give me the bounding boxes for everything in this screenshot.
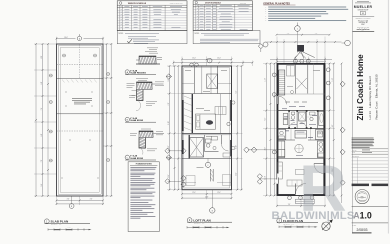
svg-text:2/08/03: 2/08/03 (357, 228, 368, 232)
loft plan outer wall (182, 66, 232, 190)
loft lower room wall (182, 158, 232, 160)
svg-text:24'-8": 24'-8" (205, 196, 209, 198)
floor plan top tag circles (293, 59, 310, 63)
svg-text:SLAB EDGE: SLAB EDGE (130, 119, 143, 122)
loft mid interior wall (182, 133, 232, 134)
floor plan scale bar (279, 226, 318, 228)
svg-text:Repoer Court Elberta, AL 36: Repoer Court Elberta, AL 36530 (374, 74, 378, 119)
svg-text:12'-4": 12'-4" (217, 58, 221, 60)
svg-text:WINDOW SCHEDULE: WINDOW SCHEDULE (128, 3, 147, 5)
slab plan left dimension lines (34, 43, 57, 197)
floor plan bottom tag circles (288, 196, 314, 200)
slab recess detail A drawing (136, 48, 162, 65)
floor plan right dimension lines (325, 63, 343, 203)
slab plan inner dashed slab edge (60, 48, 99, 192)
door schedule table (193, 1, 252, 31)
svg-text:5'-10": 5'-10" (236, 145, 238, 149)
floor plan left sliding door (276, 174, 279, 184)
svg-text:SHEET: SHEET (352, 224, 356, 226)
svg-text:1: 1 (297, 29, 298, 31)
svg-text:10'-0": 10'-0" (265, 147, 267, 151)
loft upper partition wall (182, 70, 232, 94)
floor plan kitchen band (278, 127, 325, 140)
svg-text:B: B (71, 206, 72, 208)
floor plan right section diamonds (340, 81, 345, 185)
svg-text:M: M (362, 13, 364, 15)
loft right room door (222, 135, 231, 157)
svg-text:12'-4": 12'-4" (192, 58, 196, 60)
slab plan interior joint lines (57, 44, 104, 131)
revision table (352, 156, 389, 184)
floor plan left wall window tags (272, 73, 276, 154)
svg-text:10'-10": 10'-10" (265, 175, 267, 180)
slab edge detail C drawing (130, 129, 164, 155)
slab plan wall tag circles (49, 54, 109, 162)
loft plan bottom dimension lines (181, 190, 232, 200)
svg-text:2: 2 (209, 61, 210, 63)
detail tag diamonds (166, 74, 171, 160)
svg-text:12'-4": 12'-4" (217, 192, 221, 194)
door schedule notes (193, 31, 260, 44)
slab plan bottom dimension lines (56, 196, 104, 205)
sheet date box (352, 223, 389, 233)
loft bedroom knee walls (184, 94, 221, 133)
door tag diamond (258, 44, 263, 49)
mueller design group title block (353, 1, 375, 31)
loft plan scale bar (187, 226, 230, 228)
loft plan top elevation marker (207, 58, 212, 63)
floor plan mid wall (277, 139, 325, 141)
slab plan bottom elevation marker (69, 196, 74, 208)
floor plan left dimension lines (263, 63, 277, 197)
loft plan top dimension lines (173, 57, 254, 67)
floor plan upper dimension string A (276, 33, 331, 36)
svg-text:SOLID CORE: SOLID CORE (240, 2, 247, 4)
job number dark bar (352, 184, 389, 187)
slab plan top elevation marker (77, 34, 81, 40)
loft plan title (187, 218, 232, 225)
slab plan outer wall (57, 44, 104, 196)
loft plan left dimension lines (167, 65, 182, 191)
floor plan entry steps (296, 199, 315, 203)
loft plan dark wall segments (182, 100, 232, 156)
floor plan left door arc upper (279, 96, 287, 104)
svg-text:6'-8": 6'-8" (41, 133, 43, 136)
loft plan right dimension lines (232, 65, 243, 191)
floor plan outer walls (277, 63, 325, 195)
svg-text:11'-6": 11'-6" (236, 172, 238, 176)
slab plan top dimension line (56, 37, 104, 44)
loft bedroom furniture (196, 107, 231, 130)
loft attic access x-box (207, 74, 218, 89)
svg-text:LOFT PLAN: LOFT PLAN (193, 218, 211, 222)
slab plan small anchor marks (61, 91, 99, 179)
svg-text:11'-6": 11'-6" (168, 174, 170, 178)
slab edge detail B title (125, 117, 156, 122)
floor plan ladder (279, 70, 285, 95)
svg-text:11'-2": 11'-2" (168, 145, 170, 149)
floor plan kitchen wall (277, 128, 325, 130)
svg-text:Zini Coach Home: Zini Coach Home (356, 54, 365, 121)
svg-text:Lot 13 Lake Osprey RV Resor: Lot 13 Lake Osprey RV Resort (368, 76, 372, 119)
floor plan upper room marks (285, 64, 320, 103)
svg-text:12'-4": 12'-4" (192, 192, 196, 194)
slab plan title (44, 219, 90, 226)
title strip border (351, 0, 353, 234)
svg-text:5'-6": 5'-6" (41, 183, 43, 186)
svg-text:DOOR SCHEDULE: DOOR SCHEDULE (205, 3, 222, 5)
svg-text:0 4 8: 0 4 8 (68, 226, 71, 228)
foundation notes box (128, 162, 159, 232)
project title vertical text (356, 54, 379, 121)
svg-text:6'-8": 6'-8" (41, 81, 43, 84)
slab recess detail A title (125, 69, 156, 74)
svg-text:36547: 36547 (361, 24, 365, 26)
floor plan living wall (277, 158, 325, 160)
floor plan kitchen band 2 (278, 141, 325, 158)
svg-text:SLAB RECESS: SLAB RECESS (130, 72, 146, 75)
slab plan note text block (72, 98, 92, 104)
slab plan right dimension lines (103, 43, 113, 197)
window schedule notes (117, 31, 187, 44)
svg-text:8'-0": 8'-0" (41, 55, 43, 58)
floor plan open-below railing (277, 64, 325, 95)
professional seal (355, 190, 369, 204)
disclaimer text block (352, 138, 375, 148)
svg-text:11'-10": 11'-10" (332, 78, 334, 82)
svg-text:14'-0": 14'-0" (64, 37, 68, 39)
loft lower room marks (182, 159, 232, 186)
svg-text:Phone: 251-967-4598: Phone: 251-967-4598 (357, 27, 369, 29)
svg-text:5'-10": 5'-10" (168, 121, 170, 125)
window schedule table (117, 1, 187, 31)
floor plan bottom dimension line (276, 196, 326, 208)
loft left section diamonds (165, 148, 186, 187)
floor plan top leader marker (294, 23, 306, 59)
floor plan living area (278, 162, 324, 186)
svg-text:7'-0": 7'-0" (41, 159, 43, 162)
loft open-to-below railing (182, 66, 232, 94)
floor plan top center porch element (295, 45, 315, 59)
north arrow (322, 219, 333, 230)
svg-text:NOTES:: NOTES: (195, 33, 200, 35)
floor plan left section diamonds (244, 147, 277, 184)
svg-text:BALDWIN|MLS: BALDWIN|MLS (272, 210, 355, 222)
floor plan title (277, 218, 318, 225)
slab plan recess hatch (62, 80, 97, 83)
floor plan right wall tag circles (326, 68, 330, 100)
svg-text:SLAB EDGE: SLAB EDGE (130, 157, 143, 160)
sheet number A1.0 (352, 207, 389, 221)
loft bath fixtures (205, 135, 219, 152)
floor plan bath cluster (282, 106, 324, 129)
slab edge detail C title (125, 155, 156, 160)
svg-text:1.0: 1.0 (360, 211, 372, 221)
slab edge detail B drawing (127, 78, 165, 110)
floor plan upper dimension string B (267, 37, 342, 64)
svg-text:MUELLER: MUELLER (354, 5, 373, 9)
floor plan bath wall (277, 110, 325, 112)
drawn-checked-date rows (352, 149, 389, 155)
floor plan entry door arcs (296, 184, 307, 195)
svg-text:NOTES:: NOTES: (119, 33, 124, 35)
loft stair x-box (189, 135, 204, 159)
svg-text:7'-4": 7'-4" (41, 107, 43, 110)
floor plan top dimension lines (270, 57, 332, 64)
svg-text:SLAB PLAN: SLAB PLAN (51, 220, 69, 224)
loft plan bottom elevation marker (210, 190, 215, 213)
svg-text:11'-10": 11'-10" (265, 78, 267, 82)
floor plan top end tag circles (263, 40, 350, 47)
loft center column (210, 169, 213, 181)
slab plan scale bar (48, 226, 92, 230)
general plan notes (263, 2, 348, 22)
